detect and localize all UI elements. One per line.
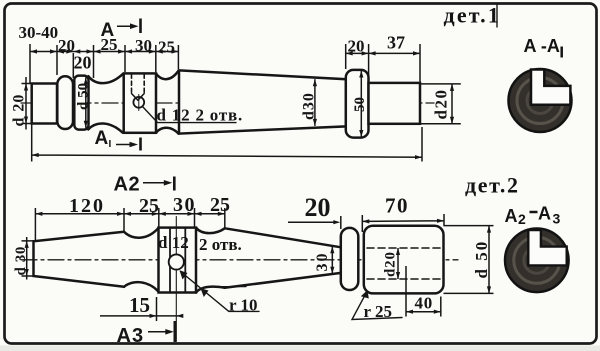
extension x124: [123, 208, 125, 232]
extension x224: [224, 208, 226, 228]
dim 70 line: [362, 214, 444, 226]
svg-text:A2: A2: [114, 174, 141, 196]
extension line x345: [345, 44, 347, 69]
extension line x178: [177, 45, 179, 69]
section label A2-A3: [505, 204, 561, 228]
svg-text:A -A: A -A: [524, 36, 560, 56]
svg-text:25: 25: [139, 195, 159, 217]
extension line x93: [93, 45, 95, 78]
overall length dimension: [32, 124, 422, 162]
page shadow below border: [0, 346, 600, 351]
neck2 bottom right: [196, 287, 225, 293]
svg-text:d20: d20: [432, 89, 451, 120]
neck2 bottom left: [124, 282, 159, 292]
svg-text:37: 37: [387, 33, 405, 53]
arrows row1: [30, 49, 178, 53]
svg-text:d 50: d 50: [472, 240, 491, 279]
extension line x125: [124, 45, 126, 72]
vertical hole walls: [170, 228, 185, 293]
neck curve bottom right: [156, 128, 179, 134]
svg-text:20: 20: [58, 36, 75, 55]
svg-text:3: 3: [553, 211, 561, 227]
extension line x73: [72, 53, 74, 78]
short divider line top right: [496, 4, 498, 28]
hidden hole lines: [132, 74, 145, 93]
svg-text:A: A: [538, 204, 551, 224]
dim 15 line: [100, 297, 180, 321]
d50 dimension: [85, 78, 87, 128]
section label A-A1: [524, 36, 560, 56]
extension x158: [158, 208, 160, 227]
svg-text:A: A: [95, 128, 109, 149]
hole centerline: [138, 95, 140, 111]
svg-text:30: 30: [173, 194, 196, 216]
shaft segment: drilled block: [124, 73, 156, 132]
svg-text:2: 2: [518, 211, 526, 227]
dimension line row detail1 left: [30, 51, 179, 53]
svg-text:d 12: d 12: [158, 233, 189, 252]
svg-text:d 50: d 50: [76, 83, 92, 110]
svg-text:50: 50: [352, 97, 368, 112]
svg-text:d 12 2 отв.: d 12 2 отв.: [157, 106, 244, 125]
svg-text:20: 20: [305, 193, 331, 222]
neck curve top left: [88, 74, 122, 83]
r25 leader: [352, 292, 402, 320]
svg-text:20: 20: [348, 37, 365, 56]
shaft segment: flange 50: [346, 70, 369, 138]
dimension row detail2: [35, 213, 224, 215]
hole drill tip: [132, 94, 145, 101]
svg-text:r 25: r 25: [364, 302, 393, 321]
section view A-A1 circle: [509, 69, 572, 132]
svg-text:70: 70: [385, 194, 409, 218]
stray scan segment near neck: [220, 286, 247, 288]
shaft2: left cone: [34, 232, 125, 287]
axis centerline detail 1: [21, 102, 434, 104]
extension line x30: [29, 44, 31, 83]
svg-text:30: 30: [135, 36, 152, 55]
dim 30 cone: [331, 246, 333, 274]
arrows row2: [35, 212, 224, 216]
extension line x57: [56, 45, 58, 75]
svg-text:A: A: [505, 206, 518, 226]
svg-text:дет.1: дет.1: [444, 3, 502, 28]
shaft2: bead disc: [341, 228, 359, 290]
d30 dimension: [314, 79, 316, 126]
r10 arrowheads: [180, 270, 188, 279]
svg-text:20: 20: [74, 53, 92, 73]
dimension line flange+end: [346, 52, 420, 54]
neck2 top left: [124, 228, 159, 238]
shaft segment: taper cone: [179, 70, 346, 133]
svg-text:d30: d30: [301, 92, 318, 120]
extension line x368: [368, 44, 370, 81]
shaft2: drilled block: [159, 228, 197, 293]
svg-text:25: 25: [158, 38, 175, 57]
shaft2: right cone: [225, 228, 341, 287]
svg-text:30: 30: [314, 252, 331, 272]
arrows row right: [346, 51, 420, 55]
shaft2: end block d50: [364, 226, 444, 294]
extension x35: [34, 208, 36, 241]
neck curve bottom left: [88, 123, 122, 132]
section marker A: [101, 20, 115, 41]
d20 bore dimension: [397, 248, 399, 279]
leader to hole label: [143, 107, 237, 123]
hole centerline vertical: [175, 217, 177, 342]
d30 left dimension: [22, 237, 34, 280]
shaft segment: right cylinder d20: [369, 83, 421, 124]
svg-text:d20: d20: [383, 251, 399, 277]
hidden bore lines: [367, 248, 441, 279]
svg-text:d 20: d 20: [11, 94, 28, 127]
svg-text:d 30: d 30: [13, 246, 29, 276]
shaft segment: left cylinder d20: [32, 84, 57, 124]
svg-text:A3: A3: [117, 325, 145, 347]
shaft segment: rounded bead: [57, 76, 73, 129]
extension line x156: [155, 45, 157, 72]
section marker A3: [117, 325, 145, 347]
svg-text:120: 120: [69, 195, 105, 217]
extension line x420: [419, 44, 421, 82]
extension x194: [194, 208, 196, 227]
svg-text:r 10: r 10: [229, 296, 258, 315]
svg-text:A: A: [101, 20, 115, 41]
section marker A2: [114, 174, 141, 196]
r10 leader line: [181, 272, 260, 312]
section view A2-A3 circle: [505, 228, 569, 292]
d20 left dimension: [22, 77, 32, 130]
shaft segment: d50 disc: [74, 76, 88, 130]
svg-text:30-40: 30-40: [19, 23, 59, 42]
d50 right dimension: [444, 226, 494, 294]
svg-text:25: 25: [210, 194, 230, 216]
axis centerline detail 2: [21, 259, 458, 261]
neck curve top right: [156, 71, 179, 80]
d20 right dimension: [420, 84, 461, 124]
svg-text:15: 15: [129, 293, 150, 317]
flange 50 dimension: [360, 71, 362, 138]
keyway cutout A2-A3: [528, 230, 566, 265]
neck2 top right: [196, 228, 225, 233]
svg-text:I: I: [109, 139, 112, 150]
svg-text:дет.2: дет.2: [465, 173, 520, 198]
cross hole circle: [133, 97, 144, 108]
dim 40: [406, 266, 441, 317]
svg-text:2 отв.: 2 отв.: [199, 235, 242, 254]
keyway cutout A-A1: [531, 70, 570, 105]
svg-text:40: 40: [415, 294, 434, 313]
section marker A1: [95, 128, 112, 150]
cross hole circle d12: [169, 254, 184, 269]
